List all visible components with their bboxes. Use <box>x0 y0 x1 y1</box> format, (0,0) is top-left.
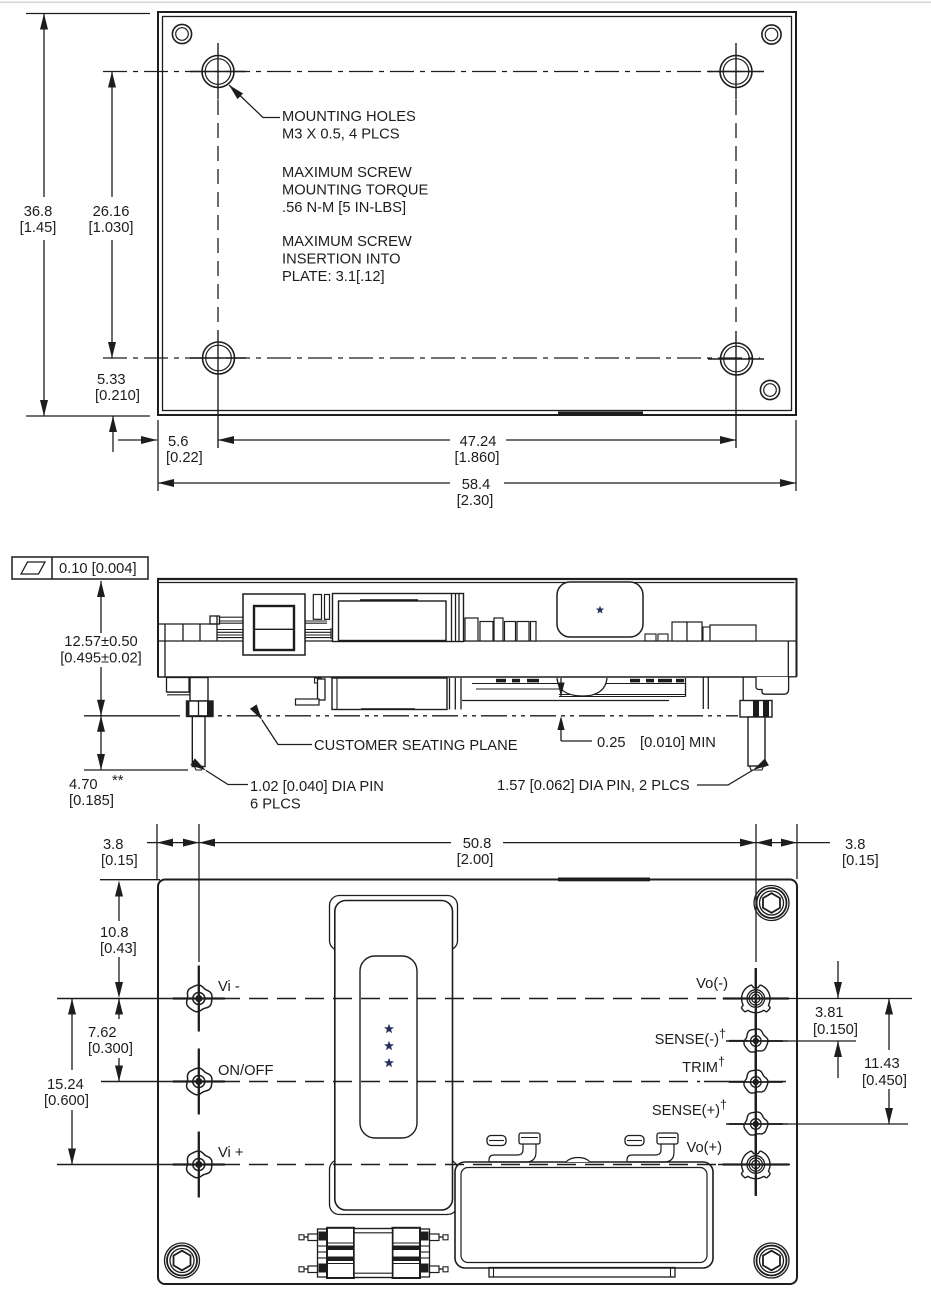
dimension 3.8 left <box>101 837 199 869</box>
page top rule <box>0 2 931 4</box>
capacitor bottom pad strip <box>489 1268 675 1278</box>
side left shelf boxes <box>158 616 220 677</box>
side right pin 1.57 dia <box>748 717 765 770</box>
top view plate outline <box>158 12 796 415</box>
svg-text:26.16: 26.16 <box>93 204 130 220</box>
side narrow posts <box>313 595 329 620</box>
svg-text:MAXIMUM SCREW: MAXIMUM SCREW <box>282 165 412 181</box>
side rounded capacitor with star <box>557 582 643 637</box>
svg-text:4.70: 4.70 <box>69 777 98 793</box>
pin Vi- <box>173 966 225 1032</box>
svg-text:1.02 [0.040] DIA PIN: 1.02 [0.040] DIA PIN <box>250 779 384 795</box>
stars in window <box>384 1024 394 1067</box>
side right pin shoulder <box>740 701 772 718</box>
dimension 47.24 [1.860] <box>218 434 736 466</box>
svg-text:[0.010] MIN: [0.010] MIN <box>640 735 716 751</box>
svg-text:MOUNTING TORQUE: MOUNTING TORQUE <box>282 183 429 199</box>
svg-text:3.8: 3.8 <box>845 837 865 853</box>
top view corner hole bottom-right <box>760 380 779 399</box>
pin SENSE(-) <box>729 1015 783 1067</box>
side right bracket <box>743 677 788 701</box>
formed lead 2 <box>627 1133 678 1162</box>
side winding lines left <box>217 630 243 638</box>
side body top and edges <box>157 578 797 677</box>
bottom view body outline <box>158 878 797 1285</box>
side transformer core <box>254 606 294 650</box>
customer seating plane centerline <box>187 715 738 717</box>
side vertical pin pair <box>703 677 708 709</box>
svg-text:ON/OFF: ON/OFF <box>218 1063 274 1079</box>
dimension 15.24 <box>44 999 89 1165</box>
svg-text:**: ** <box>112 773 124 789</box>
pin Vo(-) <box>723 969 789 1029</box>
extension lines above bottom view <box>100 824 797 962</box>
side left edge step <box>167 678 190 695</box>
svg-text:CUSTOMER SEATING PLANE: CUSTOMER SEATING PLANE <box>314 738 518 754</box>
center dash line Vi- / Vo(-) <box>57 998 788 1000</box>
svg-text:Vo(-): Vo(-) <box>696 976 728 992</box>
dimension 4.70 pin length <box>69 716 188 809</box>
svg-text:12.57±0.50: 12.57±0.50 <box>64 634 137 650</box>
pin TRIM <box>729 1056 783 1108</box>
svg-text:[0.15]: [0.15] <box>842 853 879 869</box>
mounting hole upper-left M3 <box>190 43 246 100</box>
dimension 58.4 [2.30] <box>158 420 796 509</box>
svg-text:[1.030]: [1.030] <box>89 220 134 236</box>
right pin column vertical <box>755 968 757 1196</box>
tall component bottom cap <box>330 1160 458 1215</box>
smt pad 1 <box>487 1136 506 1146</box>
svg-text:[0.300]: [0.300] <box>88 1041 133 1057</box>
corner standoff nut top-right <box>754 886 789 921</box>
svg-text:Vi +: Vi + <box>218 1145 243 1161</box>
svg-text:7.62: 7.62 <box>88 1025 117 1041</box>
bump on capacitor top edge <box>566 1158 590 1163</box>
side lower transformer <box>332 678 447 710</box>
side right caps <box>672 622 756 641</box>
dimension 50.8 <box>199 836 756 868</box>
dimension 26.16 [1.030] <box>89 72 134 359</box>
svg-text:[2.30]: [2.30] <box>457 493 494 509</box>
hidden line vertical right mounting holes <box>735 100 737 330</box>
formed lead 1 <box>489 1133 540 1162</box>
svg-text:[0.495±0.02]: [0.495±0.02] <box>60 651 142 667</box>
sense(+) pin cross line <box>726 1123 788 1125</box>
leader customer seating plane <box>250 704 518 754</box>
leader SENSE(-) <box>729 1040 748 1042</box>
svg-text:3.81: 3.81 <box>815 1005 844 1021</box>
centerline through upper mounting holes <box>103 71 760 73</box>
top view corner hole top-left <box>172 24 191 43</box>
dimension 11.43 <box>862 999 907 1125</box>
side left pin shoulder <box>187 701 214 717</box>
dimension 3.8 right <box>756 837 879 869</box>
pin Vo(+) <box>723 1135 789 1195</box>
flatness feature control frame <box>12 557 148 579</box>
output capacitor bank <box>455 1162 713 1268</box>
svg-text:[0.600]: [0.600] <box>44 1093 89 1109</box>
svg-text:[0.450]: [0.450] <box>862 1073 907 1089</box>
dimension 10.8 <box>100 881 137 999</box>
svg-text:[1.45]: [1.45] <box>20 220 57 236</box>
dimension 3.81 <box>813 961 858 1078</box>
pin ON/OFF <box>173 1049 225 1115</box>
svg-text:0.10 [0.004]: 0.10 [0.004] <box>59 561 137 577</box>
svg-text:15.24: 15.24 <box>47 1077 84 1093</box>
input transformer footprint <box>299 1228 448 1278</box>
tall component inner window <box>360 956 417 1138</box>
dimension 5.6 [0.22] <box>118 434 203 466</box>
side left pin upper body <box>190 678 208 702</box>
corner standoff nut bottom-right <box>754 1243 789 1278</box>
svg-text:0.25: 0.25 <box>597 735 626 751</box>
dimension 12.57 height <box>60 581 180 716</box>
tall component body <box>335 901 453 1211</box>
hidden line vertical left mounting holes <box>217 100 219 329</box>
svg-text:Vi -: Vi - <box>218 979 240 995</box>
sense(-) pin cross line <box>726 1040 788 1042</box>
center dash line Vi+ / Vo(+) <box>57 1164 790 1166</box>
svg-text:PLATE: 3.1[.12]: PLATE: 3.1[.12] <box>282 269 385 285</box>
svg-text:11.43: 11.43 <box>864 1056 900 1072</box>
svg-text:[0.22]: [0.22] <box>166 450 203 466</box>
svg-text:1.57 [0.062] DIA PIN, 2 PLCS: 1.57 [0.062] DIA PIN, 2 PLCS <box>497 778 690 794</box>
svg-text:INSERTION INTO: INSERTION INTO <box>282 252 401 268</box>
corner standoff nut bottom-left <box>165 1243 200 1278</box>
mounting hole upper-right M3 <box>708 43 764 100</box>
top view corner hole top-right <box>762 25 781 44</box>
side hook clip <box>296 678 326 705</box>
side lower right assembly <box>462 678 686 701</box>
svg-text:[0.210]: [0.210] <box>95 388 140 404</box>
svg-text:5.33: 5.33 <box>97 372 126 388</box>
side caps row <box>465 618 536 641</box>
svg-text:50.8: 50.8 <box>463 836 492 852</box>
side pcb band <box>158 641 797 677</box>
mounting hole lower-left M3 <box>190 330 246 448</box>
svg-text:3.8: 3.8 <box>103 837 123 853</box>
center dash line ON/OFF / TRIM <box>101 1081 786 1083</box>
side main block <box>333 594 464 642</box>
svg-text:[2.00]: [2.00] <box>457 852 494 868</box>
svg-text:[0.15]: [0.15] <box>101 853 138 869</box>
svg-text:.56 N-M [5 IN-LBS]: .56 N-M [5 IN-LBS] <box>282 200 406 216</box>
side winding lines right <box>305 621 331 639</box>
dimension 7.62 <box>88 999 133 1082</box>
svg-text:[0.43]: [0.43] <box>100 941 137 957</box>
svg-text:47.24: 47.24 <box>460 434 497 450</box>
svg-text:M3 X 0.5, 4 PLCS: M3 X 0.5, 4 PLCS <box>282 127 400 143</box>
svg-text:6 PLCS: 6 PLCS <box>250 797 301 813</box>
leader 1.57 dia pin <box>497 759 769 795</box>
svg-text:MAXIMUM SCREW: MAXIMUM SCREW <box>282 234 412 250</box>
side transformer frame <box>243 594 305 655</box>
smt pad 2 <box>625 1136 644 1146</box>
dimension 0.25 min <box>557 678 716 751</box>
note mounting holes text <box>282 109 429 285</box>
svg-text:[0.185]: [0.185] <box>69 793 114 809</box>
leader mounting holes note <box>229 85 280 118</box>
side divider verticals <box>452 594 460 642</box>
svg-text:MOUNTING HOLES: MOUNTING HOLES <box>282 109 416 125</box>
svg-text:[1.860]: [1.860] <box>455 450 500 466</box>
dimension 5.33 [0.210] <box>95 372 140 452</box>
pin Vi+ <box>173 1132 225 1198</box>
leader 1.02 dia pin <box>190 758 384 812</box>
tall component top cap <box>330 896 458 951</box>
svg-text:36.8: 36.8 <box>24 204 53 220</box>
svg-text:58.4: 58.4 <box>462 477 491 493</box>
extension lines right pins <box>788 999 912 1125</box>
svg-text:Vo(+): Vo(+) <box>686 1140 722 1156</box>
svg-text:5.6: 5.6 <box>168 434 188 450</box>
side lower divider verticals <box>450 678 462 710</box>
centerline through lower mounting holes <box>103 357 760 359</box>
svg-text:10.8: 10.8 <box>100 925 129 941</box>
pin SENSE(+) <box>729 1098 783 1150</box>
svg-text:[0.150]: [0.150] <box>813 1022 858 1038</box>
side left pin 1.02 dia <box>192 717 205 771</box>
side transformer lead lines left <box>220 617 244 623</box>
mounting hole lower-right M3 <box>708 331 764 448</box>
dimension 36.8 [1.45] <box>20 14 150 417</box>
side small pads under capacitor <box>645 634 668 641</box>
